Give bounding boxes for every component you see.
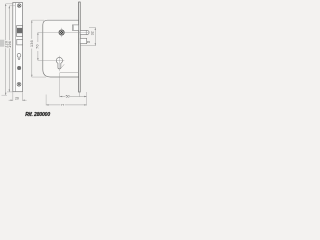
cylinder fixing screw hole [17,66,20,69]
hub centerline vertical [61,28,63,37]
dim 20 bottom [9,92,27,101]
faceplate edge-on [79,2,81,92]
plate bend line [14,3,16,92]
hub (follower) body [59,30,64,35]
deadbolt opening [17,39,23,45]
dim 50 [60,73,87,106]
cylinder keyhole in plate [17,53,21,59]
svg-text:136: 136 [30,40,34,47]
faceplate plate [13,3,23,92]
cylinder keyhole [56,57,62,69]
bottom screw hole [17,82,21,86]
dim line outer 220 [2,4,14,95]
svg-text:70: 70 [36,44,40,49]
latch centerline overlay [80,31,89,33]
hub centerline horizontal [38,31,89,33]
case body [43,20,79,77]
svg-text:196: 196 [8,41,12,48]
latch visible in opening [17,28,22,33]
latch opening [17,26,23,37]
horizontal detail line [60,72,79,74]
latch head divider [85,31,87,35]
cylinder centerline horizontal [38,59,64,61]
latch bolt [80,30,89,34]
background [0,0,100,120]
svg-text:20: 20 [15,97,19,101]
auxiliary block [72,25,78,31]
dim line 70 [37,33,39,61]
svg-text:77: 77 [61,103,65,107]
page-edge gray artifact [0,40,4,47]
deadbolt [80,38,87,43]
auxiliary block inner edge [73,25,75,30]
dim line 136 [32,20,46,77]
cylinder centerline vertical [58,56,60,71]
svg-text:32: 32 [91,31,95,35]
dim line inner 196 [7,6,15,92]
faceplate ext line [78,92,80,97]
diagonal detail line [61,64,65,68]
dim 77 [46,95,86,106]
hub center dot [60,31,63,34]
top screw hole [17,4,21,8]
svg-text:Rif. 280000: Rif. 280000 [25,112,50,118]
dim 32 right [81,28,96,46]
svg-text:45: 45 [87,40,91,44]
svg-text:50: 50 [66,95,70,99]
hub square hole [60,31,63,34]
